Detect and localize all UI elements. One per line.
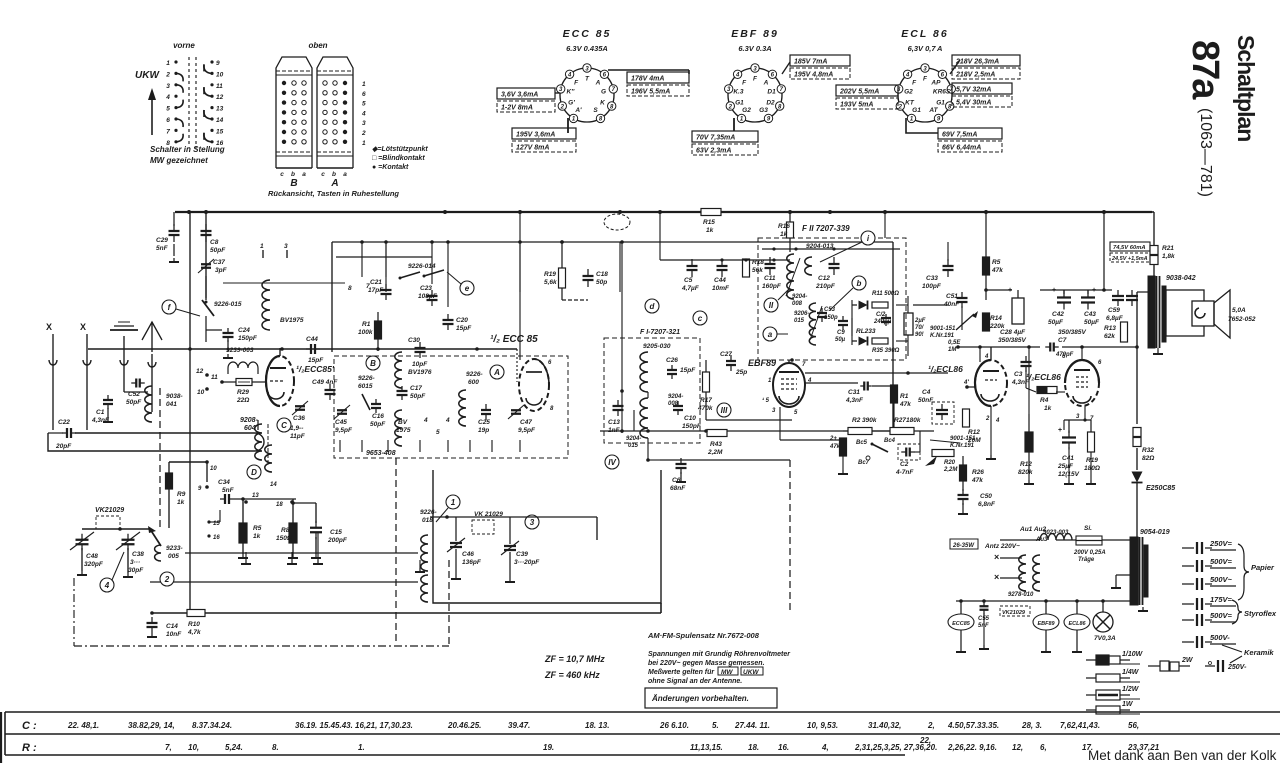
svg-text:10: 10 bbox=[197, 389, 205, 396]
svg-text:1/10W: 1/10W bbox=[1122, 651, 1144, 658]
diode E250C85 bbox=[1136, 448, 1138, 470]
capacitor C14 bbox=[150, 611, 154, 615]
resistor R16 bbox=[787, 222, 794, 238]
wire socket ECL86 right bbox=[950, 60, 960, 74]
svg-text:500V~: 500V~ bbox=[1210, 575, 1233, 584]
svg-text:10nF: 10nF bbox=[166, 631, 182, 638]
svg-text:7: 7 bbox=[166, 128, 170, 135]
svg-text:S: S bbox=[593, 107, 598, 114]
svg-text:69V 7,5mA: 69V 7,5mA bbox=[942, 132, 977, 139]
wire triode plate to C3 bbox=[979, 347, 981, 362]
svg-text:150p: 150p bbox=[824, 315, 838, 321]
svg-text:4,3nF: 4,3nF bbox=[845, 397, 864, 404]
svg-text:R20: R20 bbox=[944, 460, 956, 466]
svg-text:9,5pF: 9,5pF bbox=[335, 427, 353, 434]
svg-text:5nF: 5nF bbox=[222, 487, 235, 494]
wire x620 drop bbox=[621, 242, 623, 433]
wire B2 inner top bbox=[762, 248, 900, 250]
svg-text:0,5E: 0,5E bbox=[948, 340, 961, 346]
svg-text:C45: C45 bbox=[335, 419, 347, 426]
resistor legend 1/4W bbox=[1086, 677, 1096, 679]
circle f bbox=[162, 300, 176, 314]
capacitor C21 bbox=[381, 289, 392, 291]
svg-text:2,: 2, bbox=[927, 721, 935, 730]
capacitor C59 bbox=[1112, 295, 1124, 297]
svg-text:4: 4 bbox=[361, 110, 366, 117]
dashed box FM ratio transformer bbox=[758, 238, 906, 360]
svg-text:C37: C37 bbox=[213, 259, 225, 266]
svg-text:63V 2,3mA: 63V 2,3mA bbox=[696, 148, 731, 155]
svg-text:500V=: 500V= bbox=[1210, 611, 1233, 620]
table line bottom bbox=[5, 754, 905, 756]
svg-text:C11: C11 bbox=[764, 275, 776, 282]
svg-text:28, 3.: 28, 3. bbox=[1021, 721, 1042, 730]
dashed grid drop to tube bbox=[516, 349, 518, 382]
voltage box 3,6V 3,6mA bbox=[497, 88, 555, 99]
svg-text:C27: C27 bbox=[720, 351, 732, 358]
svg-text:5,6k: 5,6k bbox=[544, 279, 557, 286]
wire EBF89 bias bottom bbox=[842, 456, 844, 470]
svg-text:1k: 1k bbox=[1044, 405, 1052, 412]
brace Styroflex bbox=[1232, 600, 1242, 624]
svg-text:10mF: 10mF bbox=[712, 285, 730, 292]
tube V3a ECL86 triode bbox=[975, 360, 1007, 406]
coil FM link bbox=[805, 257, 812, 275]
svg-text:9023-003: 9023-003 bbox=[1043, 530, 1069, 536]
svg-text:3···: 3··· bbox=[130, 559, 140, 566]
svg-text:87a: 87a bbox=[1184, 40, 1226, 100]
svg-text:6: 6 bbox=[166, 117, 170, 124]
test capacitor 175V= bbox=[1182, 603, 1194, 605]
resistor legend 2W bbox=[1148, 665, 1160, 667]
svg-text:ECL86: ECL86 bbox=[1068, 621, 1086, 627]
voltage box 195V 3,6mA bbox=[512, 128, 576, 139]
svg-text:7652-052: 7652-052 bbox=[1228, 316, 1256, 323]
circle c bbox=[693, 311, 707, 325]
svg-text:9038-: 9038- bbox=[166, 393, 183, 400]
svg-text:C36: C36 bbox=[293, 415, 305, 422]
capacitor C42 bbox=[1057, 296, 1071, 298]
svg-text:C3: C3 bbox=[1014, 371, 1023, 378]
svg-text:C59: C59 bbox=[1108, 307, 1120, 314]
svg-text:175V=: 175V= bbox=[1210, 595, 1233, 604]
wire y460 extension bbox=[648, 459, 660, 461]
svg-text:2: 2 bbox=[361, 130, 366, 137]
svg-text:3: 3 bbox=[166, 83, 170, 90]
svg-text:Änderungen vorbehalten.: Änderungen vorbehalten. bbox=[651, 694, 749, 703]
svg-text:22,: 22, bbox=[919, 736, 931, 745]
svg-text:C16: C16 bbox=[372, 413, 384, 420]
resistor R19 180 bbox=[1088, 432, 1095, 452]
wire C41 R19 bottom gnd bbox=[1068, 447, 1070, 480]
capacitor C17 bbox=[397, 390, 408, 392]
svg-text:1nF: 1nF bbox=[608, 427, 621, 434]
svg-text:50pF: 50pF bbox=[410, 393, 426, 400]
svg-text:195V 3,6mA: 195V 3,6mA bbox=[516, 132, 555, 139]
resistor R5 bbox=[983, 257, 990, 275]
circle 1 bbox=[446, 495, 460, 509]
svg-text:50µ: 50µ bbox=[835, 337, 846, 343]
svg-text:2,2M: 2,2M bbox=[943, 467, 958, 473]
svg-text:015: 015 bbox=[794, 318, 805, 324]
svg-text:R10: R10 bbox=[188, 621, 200, 628]
svg-text:ZF = 460 kHz: ZF = 460 kHz bbox=[544, 670, 600, 680]
capacitor C47 trimmer bbox=[511, 409, 521, 411]
svg-text:2: 2 bbox=[165, 71, 170, 78]
svg-text:4: 4 bbox=[905, 73, 910, 79]
svg-text:9: 9 bbox=[216, 60, 220, 67]
svg-text:EBF 89: EBF 89 bbox=[731, 28, 779, 40]
svg-text:1975: 1975 bbox=[396, 427, 411, 434]
wire C33 C51 stub bbox=[947, 242, 949, 261]
wire socket ECC85 left bbox=[555, 92, 560, 94]
wire fuse to transformer bbox=[1102, 539, 1131, 541]
coil BV1976 bbox=[395, 352, 402, 388]
resistor R10 bbox=[187, 610, 205, 617]
svg-text:UKW: UKW bbox=[743, 669, 759, 676]
svg-text:10, 9,53.: 10, 9,53. bbox=[807, 721, 838, 730]
svg-text:9233-: 9233- bbox=[166, 545, 183, 552]
svg-text:C25: C25 bbox=[478, 419, 490, 426]
wire x1029 plate bbox=[1028, 347, 1030, 414]
tube V1a ECC85 first half bbox=[266, 356, 294, 406]
svg-text:C43: C43 bbox=[1084, 311, 1096, 318]
svg-text:G′: G′ bbox=[568, 99, 575, 106]
svg-text:A: A bbox=[330, 178, 338, 189]
svg-text:1k: 1k bbox=[706, 227, 714, 234]
svg-text:×: × bbox=[994, 572, 999, 582]
svg-text:9204-: 9204- bbox=[668, 394, 683, 400]
svg-text:5.: 5. bbox=[712, 721, 719, 730]
svg-text:C/2: C/2 bbox=[876, 312, 886, 318]
svg-text:2: 2 bbox=[728, 104, 733, 110]
tube heater ECL86 bbox=[1064, 614, 1090, 630]
svg-text:9239-003: 9239-003 bbox=[226, 347, 254, 354]
table line top bbox=[5, 711, 1280, 713]
transformer 9054-019 core bbox=[1130, 537, 1138, 605]
capacitor C26 bbox=[667, 369, 677, 371]
svg-text:6: 6 bbox=[362, 91, 366, 98]
svg-text:041: 041 bbox=[166, 401, 177, 408]
capacitor C5 bbox=[687, 265, 698, 267]
circle i bbox=[861, 231, 875, 245]
circle C bbox=[277, 418, 291, 432]
keyboard block A bbox=[317, 57, 353, 168]
tube heater ECC85 bbox=[948, 614, 974, 630]
resistor R21 bbox=[1150, 246, 1158, 255]
svg-text:3···20pF: 3···20pF bbox=[514, 559, 540, 566]
svg-text:39.47.: 39.47. bbox=[508, 721, 530, 730]
svg-text:9001-151: 9001-151 bbox=[950, 436, 976, 442]
svg-text:56k: 56k bbox=[752, 267, 763, 274]
svg-text:2W: 2W bbox=[1181, 657, 1194, 664]
svg-text:C48: C48 bbox=[86, 553, 98, 560]
capacitor C27 bbox=[726, 360, 736, 362]
svg-text:1: 1 bbox=[362, 81, 366, 88]
svg-text:500V-: 500V- bbox=[1210, 633, 1230, 642]
capacitor C49 bbox=[325, 389, 336, 391]
dashed box VK21029 heater bbox=[1000, 606, 1030, 616]
oscillator coils bbox=[421, 535, 428, 571]
svg-text:C47: C47 bbox=[520, 419, 532, 426]
svg-text:c: c bbox=[698, 314, 703, 323]
voltage box 178V 4mA bbox=[627, 72, 689, 83]
resistor R12 20M bbox=[963, 409, 970, 427]
resistor R18 bbox=[743, 259, 750, 277]
svg-text:18.: 18. bbox=[748, 743, 759, 752]
coil 9038-041 bbox=[124, 391, 148, 393]
svg-text:6.3V 0.435A: 6.3V 0.435A bbox=[566, 44, 608, 53]
svg-text:R5: R5 bbox=[253, 525, 262, 532]
svg-text:● =Kontakt: ● =Kontakt bbox=[372, 164, 409, 171]
wire B+ into transformer bbox=[1104, 289, 1112, 291]
capacitor C4 dashed box bbox=[936, 409, 948, 411]
svg-text:VK21029: VK21029 bbox=[95, 507, 124, 514]
svg-text:3,6V 3,6mA: 3,6V 3,6mA bbox=[501, 92, 538, 99]
svg-text:4: 4 bbox=[165, 94, 170, 101]
svg-text:C41: C41 bbox=[1062, 455, 1074, 462]
svg-text:350/385V: 350/385V bbox=[1058, 329, 1086, 336]
svg-text:1: 1 bbox=[260, 243, 264, 250]
svg-text:R19: R19 bbox=[544, 271, 556, 278]
svg-text:5: 5 bbox=[436, 429, 440, 436]
svg-text:9001-151: 9001-151 bbox=[930, 326, 956, 332]
wire R5 bottom mesh bbox=[245, 552, 247, 560]
resistor R35 bbox=[872, 338, 888, 344]
svg-text:9204-: 9204- bbox=[626, 436, 641, 442]
svg-text:R43: R43 bbox=[710, 441, 722, 448]
svg-text:X: X bbox=[80, 322, 86, 332]
wire pentode cathode bbox=[1084, 406, 1086, 420]
svg-text:Styroflex: Styroflex bbox=[1244, 609, 1277, 618]
test capacitor 250V bbox=[1205, 665, 1215, 667]
svg-text:C15: C15 bbox=[330, 529, 342, 536]
svg-text:C53: C53 bbox=[824, 307, 836, 313]
svg-text:R11 500Ω: R11 500Ω bbox=[872, 291, 899, 297]
svg-text:178V 4mA: 178V 4mA bbox=[631, 76, 664, 83]
svg-text:R15: R15 bbox=[703, 219, 715, 226]
svg-text:F I-7207-321: F I-7207-321 bbox=[640, 329, 680, 336]
svg-text:31.40,32,: 31.40,32, bbox=[868, 721, 901, 730]
svg-text:C20: C20 bbox=[456, 317, 468, 324]
primary coil 9278-010 bbox=[1019, 555, 1026, 591]
svg-text:22Ω: 22Ω bbox=[236, 397, 249, 404]
svg-text:50µF: 50µF bbox=[1048, 319, 1064, 326]
circle 3 bbox=[525, 515, 539, 529]
capacitor 2uF electrolytic bbox=[904, 313, 913, 335]
svg-text:218V 26,3mA: 218V 26,3mA bbox=[955, 59, 999, 66]
svg-text:B: B bbox=[370, 359, 376, 368]
svg-text:4: 4 bbox=[984, 354, 989, 360]
svg-text:9038-042: 9038-042 bbox=[1166, 275, 1196, 282]
resistor R4 bbox=[1037, 387, 1057, 394]
wire C34 to R8 bbox=[234, 498, 296, 500]
wire bus bottom bbox=[152, 612, 661, 614]
test capacitor 250V= bbox=[1182, 547, 1194, 549]
svg-text:¹ 5: ¹ 5 bbox=[762, 397, 770, 404]
svg-text:C18: C18 bbox=[596, 271, 608, 278]
dashed vertical MW FM divider bbox=[789, 460, 791, 612]
wire long lines to osc bbox=[185, 552, 374, 554]
svg-text:A: A bbox=[493, 368, 500, 377]
svg-text:G: G bbox=[601, 89, 606, 96]
svg-text:AP: AP bbox=[930, 79, 941, 86]
wire antenna loop top bbox=[48, 432, 63, 434]
svg-text:70/: 70/ bbox=[915, 325, 925, 331]
svg-text:R13: R13 bbox=[1104, 325, 1116, 332]
svg-text:C31: C31 bbox=[848, 389, 860, 396]
wire x332 drop bbox=[331, 242, 333, 352]
svg-text:10pF: 10pF bbox=[412, 361, 428, 368]
svg-text:C34: C34 bbox=[218, 479, 230, 486]
svg-text:C30: C30 bbox=[408, 337, 420, 344]
wire AM IF to EBF grid bbox=[647, 443, 649, 460]
wire heater bus bbox=[956, 600, 1136, 602]
svg-text:G1: G1 bbox=[936, 99, 945, 106]
wire EBF89 plate line bbox=[805, 372, 948, 374]
diode ratio 2 bbox=[852, 340, 857, 342]
svg-text:G1: G1 bbox=[735, 99, 744, 106]
svg-text:a: a bbox=[302, 171, 306, 178]
capacitor C12b bbox=[881, 317, 891, 319]
antenna arrow symbol bbox=[142, 322, 162, 340]
wire MW link lines bbox=[374, 552, 418, 554]
svg-text:1M: 1M bbox=[948, 347, 957, 353]
svg-text:50pF: 50pF bbox=[126, 399, 142, 406]
wire socket ECC85 right bbox=[608, 69, 689, 71]
svg-text:R1: R1 bbox=[362, 321, 371, 328]
svg-text:Bc4: Bc4 bbox=[884, 438, 896, 444]
test capacitor 500V- bbox=[1182, 641, 1194, 643]
svg-text:5,4V 30mA: 5,4V 30mA bbox=[956, 100, 991, 107]
svg-text:150pF: 150pF bbox=[238, 335, 258, 342]
svg-text:24,5V +1,5mA: 24,5V +1,5mA bbox=[1111, 256, 1148, 262]
resistor R32 bbox=[1133, 428, 1141, 437]
svg-text:9226-: 9226- bbox=[420, 509, 437, 516]
svg-text:A: A bbox=[763, 79, 769, 86]
svg-text:1W: 1W bbox=[1122, 701, 1134, 708]
svg-text:5,0A: 5,0A bbox=[1232, 307, 1246, 314]
coil ratio secondary bbox=[809, 303, 816, 345]
ground osc coil bbox=[419, 568, 421, 572]
resistor R9 bbox=[166, 473, 173, 489]
resistor R11 bbox=[872, 302, 888, 308]
svg-text:10: 10 bbox=[210, 466, 217, 472]
svg-text:10: 10 bbox=[216, 71, 224, 78]
svg-text:C13: C13 bbox=[608, 419, 620, 426]
svg-text:3: 3 bbox=[530, 518, 535, 527]
resistor R14 bbox=[983, 313, 990, 331]
svg-text:bei 220V~ gegen Masse gemessen: bei 220V~ gegen Masse gemessen. bbox=[648, 660, 765, 667]
svg-text:R9: R9 bbox=[177, 491, 186, 498]
svg-text:26-35W: 26-35W bbox=[952, 543, 975, 549]
diode ratio 1 bbox=[852, 304, 857, 306]
svg-text:Schaltplan: Schaltplan bbox=[1233, 35, 1259, 141]
voltage box 218V 26,3mA bbox=[952, 55, 1020, 66]
svg-text:b: b bbox=[291, 171, 295, 178]
svg-text:R1: R1 bbox=[900, 393, 909, 400]
svg-text:R27: R27 bbox=[894, 417, 906, 424]
dashed box AM IF bbox=[604, 338, 700, 443]
svg-text:19p: 19p bbox=[478, 427, 489, 434]
svg-text:12: 12 bbox=[196, 368, 204, 375]
svg-text:4: 4 bbox=[567, 73, 572, 79]
svg-text:56,: 56, bbox=[1128, 721, 1139, 730]
transformer 9038-042 windings bbox=[1148, 276, 1155, 348]
resistor R29 bbox=[236, 379, 252, 386]
wire EBF89 screen line bbox=[805, 382, 858, 384]
capacitor C33 bbox=[943, 265, 954, 267]
capacitor C39 trimmer bbox=[504, 545, 516, 547]
wire socket ECC85 bottom bbox=[567, 118, 569, 133]
svg-text:47k: 47k bbox=[899, 401, 911, 408]
svg-text:11,13,15.: 11,13,15. bbox=[690, 743, 723, 752]
svg-text:1: 1 bbox=[451, 498, 456, 507]
wire C33 top bbox=[947, 212, 949, 242]
wire tone control row bbox=[930, 440, 960, 443]
wire C5 feed bbox=[660, 259, 692, 261]
svg-text:Schalter in Stellung: Schalter in Stellung bbox=[150, 145, 225, 154]
svg-text:C10: C10 bbox=[684, 415, 696, 422]
svg-text:250V=: 250V= bbox=[1209, 539, 1233, 548]
circle A bbox=[490, 365, 504, 379]
svg-text:C26: C26 bbox=[666, 357, 678, 364]
svg-text:C :: C : bbox=[22, 720, 37, 732]
wire pentode plate up bbox=[1081, 347, 1083, 360]
wire HT vertical bbox=[1136, 292, 1138, 424]
svg-text:X: X bbox=[46, 322, 52, 332]
svg-text:Keramik: Keramik bbox=[1244, 648, 1274, 657]
resistor R19 bbox=[559, 268, 566, 288]
coil 9208-604 loop end bbox=[255, 433, 264, 451]
svg-text:9226-: 9226- bbox=[466, 371, 483, 378]
wire speaker feed bbox=[1137, 291, 1149, 293]
wire EBF plate stub bbox=[791, 418, 793, 430]
svg-text:◆=Lötstützpunkt: ◆=Lötstützpunkt bbox=[372, 146, 428, 153]
svg-text:K″: K″ bbox=[567, 89, 576, 96]
svg-text:50p: 50p bbox=[596, 279, 607, 286]
svg-text:b: b bbox=[857, 279, 862, 288]
capacitor C13 bbox=[613, 405, 624, 407]
ground antenna symbol bbox=[123, 336, 125, 352]
svg-text:47k: 47k bbox=[829, 444, 841, 450]
box 26-35W bbox=[950, 539, 978, 549]
svg-text:C12: C12 bbox=[818, 275, 830, 282]
svg-text:4: 4 bbox=[995, 418, 1000, 424]
svg-text:26 6.10.: 26 6.10. bbox=[659, 721, 689, 730]
svg-text:D2: D2 bbox=[766, 99, 775, 106]
svg-text:C33: C33 bbox=[926, 275, 938, 282]
wire EBF89 grid bbox=[647, 438, 649, 443]
svg-text:BV1976: BV1976 bbox=[408, 369, 432, 376]
svg-text:Rückansicht, Tasten in Ruheste: Rückansicht, Tasten in Ruhestellung bbox=[268, 189, 399, 198]
svg-text:AM·FM-Spulensatz Nr.7672-008: AM·FM-Spulensatz Nr.7672-008 bbox=[647, 631, 760, 640]
svg-text:2+: 2+ bbox=[829, 436, 837, 442]
svg-text:9226-015: 9226-015 bbox=[214, 301, 242, 308]
svg-text:¹/₂ECL86: ¹/₂ECL86 bbox=[928, 364, 963, 374]
svg-text:13: 13 bbox=[252, 493, 259, 499]
svg-text:160pF: 160pF bbox=[762, 283, 782, 290]
svg-text:Träge: Träge bbox=[1078, 557, 1095, 563]
wire triode grid bbox=[967, 386, 975, 388]
voltage box 74.5V bbox=[1110, 242, 1150, 251]
wire EBF89 plate top bbox=[788, 360, 790, 363]
solid box oscillator bbox=[433, 470, 661, 603]
svg-text:R32: R32 bbox=[1142, 447, 1154, 454]
junction dots misc bbox=[244, 500, 248, 504]
ground cluster tuner bbox=[339, 440, 341, 452]
svg-text:R12: R12 bbox=[1020, 461, 1032, 468]
